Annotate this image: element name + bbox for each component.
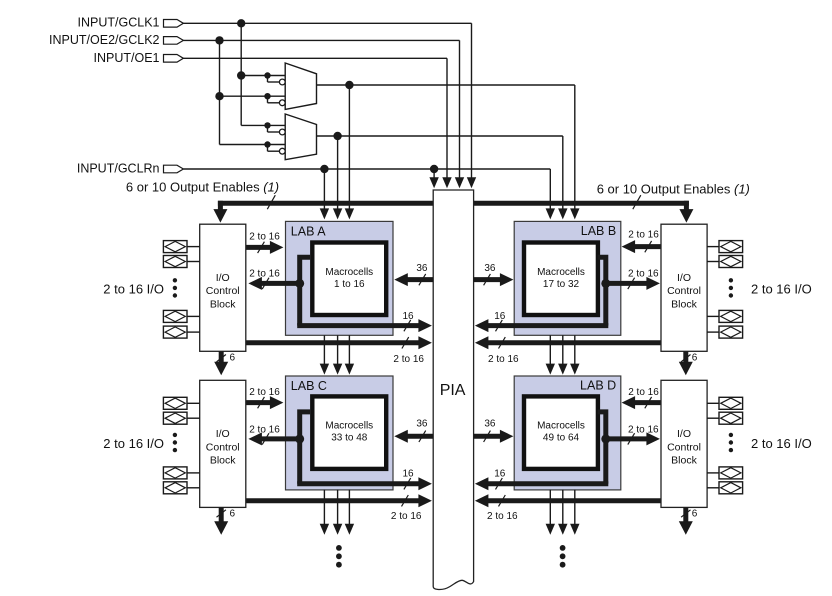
wire global below LAB D x562.8 bbox=[562, 490, 564, 525]
I/O cell right-top 4 bbox=[719, 326, 743, 338]
svg-text:Block: Block bbox=[671, 299, 697, 311]
slash on bus right bbox=[633, 195, 641, 209]
junction GCLK1 tap bbox=[237, 19, 245, 27]
LAB A 2-to-16 arrow to I/O block bbox=[261, 281, 300, 286]
junction LAB D feedback bbox=[601, 434, 610, 443]
junction mux1 upper complement tap bbox=[264, 72, 270, 78]
wire global into LAB D x562.8 bbox=[562, 335, 564, 364]
wire GCLK1 to PIA vertical bbox=[471, 23, 473, 178]
36 arrow PIA to LAB A bbox=[407, 277, 433, 282]
svg-text:Control: Control bbox=[667, 441, 701, 453]
LAB B 16-line to PIA bbox=[487, 323, 608, 328]
svg-text:36: 36 bbox=[416, 419, 428, 430]
2-to-16 line left-top to PIA bbox=[246, 340, 420, 345]
junction mux2 lower complement tap bbox=[264, 141, 270, 147]
slash right-bottom-pia bbox=[499, 495, 506, 506]
svg-text:LAB D: LAB D bbox=[580, 379, 616, 393]
right-bottom IOC 6 arrow bbox=[683, 507, 688, 522]
bubble mux1 lower inverter bbox=[279, 100, 285, 106]
svg-text:49 to 64: 49 to 64 bbox=[543, 433, 580, 444]
LAB A block bbox=[286, 221, 394, 335]
LAB C macrocell feedback path bbox=[300, 412, 310, 484]
wire mux1 upper complement branch bbox=[267, 76, 269, 83]
svg-text:2 to 16 I/O: 2 to 16 I/O bbox=[103, 436, 164, 451]
I/O cell right-top 1 bbox=[719, 241, 743, 253]
I/O cell right-bottom 2 bbox=[719, 412, 743, 424]
ellipsis below LAB D bbox=[560, 545, 566, 551]
svg-text:Block: Block bbox=[210, 455, 236, 467]
wire mux2 into LAB B bbox=[562, 136, 564, 209]
LAB C block bbox=[286, 376, 394, 490]
I/O cell right-bottom 3 bbox=[719, 467, 743, 479]
wire GCLRn to PIA vertical bbox=[433, 169, 435, 178]
2-to-16 line left-bottom to PIA bbox=[246, 498, 420, 503]
36 arrow PIA to LAB C bbox=[407, 434, 433, 439]
LAB D macrocell feedback path bbox=[598, 412, 606, 484]
slash left-top 6 bbox=[217, 355, 226, 362]
svg-text:2 to 16 I/O: 2 to 16 I/O bbox=[103, 281, 164, 296]
bus arrow into right I/O control block bbox=[684, 201, 689, 210]
wire OE1 horizontal bbox=[183, 57, 447, 59]
svg-text:6: 6 bbox=[230, 509, 236, 520]
I/O cell left-top 4 bbox=[163, 326, 187, 338]
2-to-16 arrow IOC to LAB D bbox=[634, 400, 661, 405]
svg-text:2 to 16: 2 to 16 bbox=[249, 269, 280, 280]
2-to-16 arrow IOC to LAB B bbox=[634, 244, 661, 249]
svg-text:16: 16 bbox=[402, 311, 414, 322]
I/O cell right-top 3 bbox=[719, 310, 743, 322]
svg-text:2 to 16 I/O: 2 to 16 I/O bbox=[751, 436, 812, 451]
svg-text:I/O: I/O bbox=[216, 428, 230, 440]
right-bottom IOC box bbox=[661, 380, 707, 507]
input pin INPUT/GCLRn bbox=[164, 165, 184, 173]
svg-text:Control: Control bbox=[667, 285, 701, 297]
36 arrow PIA to LAB D bbox=[474, 434, 501, 439]
LAB B 2-to-16 arrow to I/O block bbox=[606, 281, 648, 286]
svg-text:6 or 10 Output Enables (1): 6 or 10 Output Enables (1) bbox=[126, 179, 279, 194]
macrocells 1 to 16 box bbox=[312, 243, 386, 316]
junction LAB B feedback bbox=[601, 279, 610, 288]
wire mux1 into LAB B bbox=[574, 85, 576, 209]
svg-text:2 to 16: 2 to 16 bbox=[628, 269, 659, 280]
svg-text:I/O: I/O bbox=[677, 272, 691, 284]
wire OE2 horizontal bbox=[183, 39, 459, 41]
wire mux2 upper complement branch bbox=[267, 125, 269, 132]
mux 1 (clock select) bbox=[285, 63, 316, 109]
junction LAB A feedback bbox=[295, 279, 304, 288]
I/O cell left-bottom 3 bbox=[163, 467, 187, 479]
wire mux2 lower input bbox=[268, 144, 286, 146]
wire global below LAB D x574.8 bbox=[574, 490, 576, 525]
svg-text:Block: Block bbox=[671, 455, 697, 467]
svg-text:2 to 16: 2 to 16 bbox=[487, 511, 518, 522]
wire global into LAB C x324.4 bbox=[323, 335, 325, 364]
slash left-top-pia bbox=[402, 337, 409, 348]
2-to-16 arrow IOC to LAB C bbox=[246, 400, 271, 405]
svg-text:2 to 16: 2 to 16 bbox=[628, 230, 659, 241]
I/O cell right-bottom 4 bbox=[719, 482, 743, 494]
svg-text:Macrocells: Macrocells bbox=[537, 421, 585, 432]
svg-text:2 to 16: 2 to 16 bbox=[628, 387, 659, 398]
bubble mux2 lower inverter bbox=[279, 148, 285, 154]
svg-text:Macrocells: Macrocells bbox=[325, 421, 373, 432]
svg-text:INPUT/OE1: INPUT/OE1 bbox=[94, 51, 160, 65]
wire GCLK1 feed vertical bbox=[240, 23, 242, 125]
svg-text:INPUT/GCLK1: INPUT/GCLK1 bbox=[78, 16, 160, 30]
LAB B block bbox=[514, 221, 621, 335]
junction GCLRn to PIA bbox=[430, 165, 438, 173]
svg-text:2 to 16: 2 to 16 bbox=[249, 387, 280, 398]
I/O cell right-bottom 1 bbox=[719, 397, 743, 409]
slash 16 LAB C bbox=[404, 478, 411, 489]
LAB A 16-line to PIA bbox=[297, 323, 419, 328]
wire mux1 output bbox=[317, 84, 575, 86]
svg-text:Macrocells: Macrocells bbox=[325, 267, 373, 278]
LAB D 2-to-16 arrow to I/O block bbox=[606, 436, 648, 441]
wire OE2 to PIA vertical bbox=[459, 40, 461, 178]
bubble mux2 upper inverter bbox=[279, 129, 285, 135]
svg-text:6: 6 bbox=[230, 352, 236, 363]
slash right-top 6 bbox=[681, 355, 690, 362]
svg-text:Macrocells: Macrocells bbox=[537, 267, 585, 278]
bubble mux1 upper inverter bbox=[279, 79, 285, 85]
slash labb-ioc bbox=[628, 278, 635, 289]
wire mux1 lower complement branch bbox=[267, 96, 269, 103]
slash labd-ioc bbox=[628, 433, 635, 444]
junction mux1 output to LAB A bbox=[345, 81, 353, 89]
2-to-16 arrow IOC to LAB A bbox=[246, 245, 271, 250]
junction mux2 output to LAB B bbox=[333, 132, 341, 140]
macrocells 17 to 32 box bbox=[524, 243, 598, 316]
LAB D 16-line to PIA bbox=[487, 481, 608, 486]
svg-text:36: 36 bbox=[416, 263, 428, 274]
svg-text:6 or 10 Output Enables (1): 6 or 10 Output Enables (1) bbox=[597, 181, 750, 196]
mux 2 (enable select) bbox=[285, 114, 316, 160]
wire OE1 to PIA vertical bbox=[446, 58, 448, 178]
svg-text:2 to 16: 2 to 16 bbox=[393, 354, 424, 365]
svg-text:2 to 16: 2 to 16 bbox=[249, 424, 280, 435]
svg-text:6: 6 bbox=[692, 352, 698, 363]
svg-text:Control: Control bbox=[206, 441, 240, 453]
svg-text:36: 36 bbox=[484, 263, 496, 274]
slash left-bottom-pia bbox=[402, 495, 409, 506]
left-bottom IOC 6 arrow bbox=[219, 507, 224, 522]
macrocells 49 to 64 box bbox=[524, 396, 598, 469]
svg-text:Block: Block bbox=[210, 299, 236, 311]
junction mux1 lower tap bbox=[215, 92, 223, 100]
wire global below LAB C x349.4 bbox=[348, 490, 350, 525]
junction mux1 lower complement tap bbox=[264, 93, 270, 99]
wire mux1 upper input bbox=[241, 75, 285, 77]
slash ioc-laba bbox=[258, 242, 265, 253]
wire mux2 lower complement branch bbox=[267, 145, 269, 152]
slash 36 LAB B bbox=[484, 274, 491, 285]
wire GCLRn horizontal bbox=[183, 168, 550, 170]
svg-text:16: 16 bbox=[402, 469, 414, 480]
slash laba-ioc bbox=[262, 278, 269, 289]
wire mux2 into LAB A bbox=[337, 136, 339, 209]
svg-text:LAB A: LAB A bbox=[291, 224, 326, 238]
left-top IOC box bbox=[200, 224, 246, 351]
I/O cell left-bottom 2 bbox=[163, 412, 187, 424]
wire global into LAB D x550.3 bbox=[549, 335, 551, 364]
slash 36 LAB D bbox=[484, 431, 491, 442]
junction LAB C feedback bbox=[295, 434, 304, 443]
svg-text:INPUT/OE2/GCLK2: INPUT/OE2/GCLK2 bbox=[49, 33, 159, 47]
right-top IOC box bbox=[661, 224, 707, 351]
svg-text:36: 36 bbox=[484, 419, 496, 430]
slash right-bottom 6 bbox=[681, 510, 690, 517]
wire global below LAB C x324.4 bbox=[323, 490, 325, 525]
ellipsis right-top cells bbox=[729, 278, 733, 282]
svg-text:2 to 16: 2 to 16 bbox=[488, 354, 519, 365]
svg-text:LAB B: LAB B bbox=[581, 224, 616, 238]
wire GCLRn into LAB A bbox=[323, 169, 325, 209]
2-to-16 line right-bottom to PIA bbox=[487, 498, 661, 503]
36 arrow PIA to LAB B bbox=[474, 277, 501, 282]
wire global below LAB C x337.6 bbox=[337, 490, 339, 525]
slash 36 LAB A bbox=[419, 274, 426, 285]
svg-text:16: 16 bbox=[494, 469, 506, 480]
wire mux1 lower input bbox=[220, 95, 286, 97]
junction mux1 upper tap bbox=[237, 71, 245, 79]
ellipsis below LAB C bbox=[336, 545, 342, 551]
bus output enables bbox=[218, 201, 689, 206]
I/O cell right-top 2 bbox=[719, 256, 743, 268]
left-top IOC 6 arrow bbox=[219, 351, 224, 363]
wire mux2 output bbox=[317, 135, 563, 137]
2-to-16 line right-top to PIA bbox=[487, 340, 661, 345]
input pin INPUT/OE1 bbox=[164, 55, 184, 63]
PIA column bbox=[433, 190, 473, 589]
junction mux2 upper complement tap bbox=[264, 122, 270, 128]
slash ioc-labb bbox=[645, 241, 652, 252]
right-top IOC 6 arrow bbox=[683, 351, 688, 363]
slash ioc-labc bbox=[258, 397, 265, 408]
slash right-top-pia bbox=[499, 337, 506, 348]
svg-text:6: 6 bbox=[692, 509, 698, 520]
junction GCLRn to LAB A bbox=[320, 165, 328, 173]
ellipsis left-top cells bbox=[173, 278, 177, 282]
wire GCLRn into LAB B bbox=[549, 169, 551, 209]
LAB D block bbox=[514, 376, 621, 490]
slash 16 LAB A bbox=[404, 320, 411, 331]
wire mux1 into LAB A bbox=[348, 85, 350, 209]
slash labc-ioc bbox=[262, 433, 269, 444]
svg-text:Control: Control bbox=[206, 285, 240, 297]
svg-text:INPUT/GCLRn: INPUT/GCLRn bbox=[77, 162, 160, 176]
svg-text:16: 16 bbox=[494, 311, 506, 322]
svg-text:2 to 16: 2 to 16 bbox=[249, 231, 280, 242]
svg-text:PIA: PIA bbox=[440, 382, 466, 399]
LAB A macrocell feedback path bbox=[300, 257, 310, 325]
wire global below LAB D x550.3 bbox=[549, 490, 551, 525]
svg-text:I/O: I/O bbox=[677, 428, 691, 440]
wire global into LAB D x574.8 bbox=[574, 335, 576, 364]
svg-text:1 to 16: 1 to 16 bbox=[334, 279, 365, 290]
junction OE2 tap bbox=[215, 36, 223, 44]
svg-text:17 to 32: 17 to 32 bbox=[543, 279, 580, 290]
ellipsis right-bottom cells bbox=[729, 433, 733, 437]
svg-text:2 to 16 I/O: 2 to 16 I/O bbox=[751, 281, 812, 296]
I/O cell left-top 1 bbox=[163, 241, 187, 253]
I/O cell left-bottom 4 bbox=[163, 482, 187, 494]
svg-text:33 to 48: 33 to 48 bbox=[331, 433, 368, 444]
bus arrow into left I/O control block bbox=[218, 201, 223, 210]
slash 16 LAB D bbox=[496, 478, 503, 489]
wire OE2 feed vertical bbox=[219, 40, 221, 144]
slash 16 LAB B bbox=[496, 320, 503, 331]
slash on bus left bbox=[267, 195, 275, 209]
wire global into LAB C x337.6 bbox=[337, 335, 339, 364]
I/O cell left-top 3 bbox=[163, 310, 187, 322]
slash left-bottom 6 bbox=[217, 510, 226, 517]
slash ioc-labd bbox=[645, 397, 652, 408]
wire mux2 upper input bbox=[268, 124, 286, 126]
LAB B macrocell feedback path bbox=[598, 257, 606, 325]
slash 36 LAB C bbox=[419, 431, 426, 442]
LAB C 16-line to PIA bbox=[297, 481, 419, 486]
svg-text:2 to 16: 2 to 16 bbox=[391, 511, 422, 522]
wire global into LAB C x349.4 bbox=[348, 335, 350, 364]
svg-text:LAB C: LAB C bbox=[291, 379, 327, 393]
LAB C 2-to-16 arrow to I/O block bbox=[261, 436, 300, 441]
I/O cell left-top 2 bbox=[163, 256, 187, 268]
input pin INPUT/GCLK1 bbox=[164, 20, 184, 28]
macrocells 33 to 48 box bbox=[312, 396, 386, 469]
wire GCLK1 horizontal bbox=[183, 22, 471, 24]
I/O cell left-bottom 1 bbox=[163, 397, 187, 409]
left-bottom IOC box bbox=[200, 380, 246, 507]
svg-text:I/O: I/O bbox=[216, 272, 230, 284]
input pin INPUT/OE2/GCLK2 bbox=[164, 37, 184, 45]
ellipsis left-bottom cells bbox=[173, 433, 177, 437]
svg-text:2 to 16: 2 to 16 bbox=[628, 424, 659, 435]
